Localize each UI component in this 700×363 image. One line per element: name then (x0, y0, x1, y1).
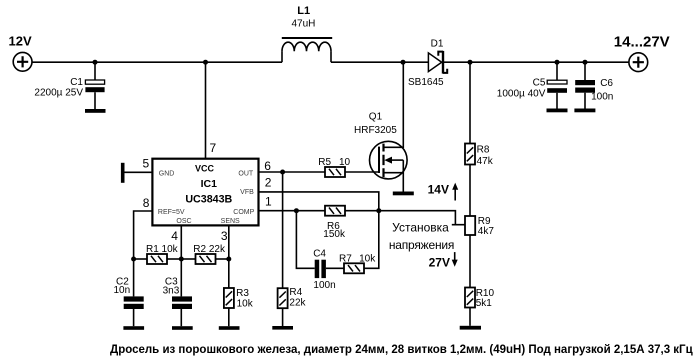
pin 6 wire (OUT) to gate (259, 171, 326, 173)
resistor R8 47k (465, 62, 494, 216)
capacitor C1 2200u 25V (34, 62, 104, 109)
node: C6 junction (583, 60, 588, 65)
svg-text:3: 3 (221, 229, 228, 243)
svg-text:10n: 10n (114, 285, 131, 296)
svg-text:D1: D1 (431, 38, 444, 49)
node: R2 right junction (226, 257, 231, 262)
node: C1 junction (93, 60, 98, 65)
ground below R10 (460, 326, 481, 330)
node: VCC junction (203, 60, 208, 65)
svg-text:SB1645: SB1645 (408, 77, 444, 88)
ground below C2 (123, 326, 144, 330)
node: COMP junction (294, 208, 299, 213)
12V input terminal (9, 34, 33, 72)
IC IC1 UC3843B (152, 159, 258, 226)
capacitor C6 100n (575, 62, 613, 108)
svg-text:R8: R8 (477, 145, 490, 156)
node: R8 junction (468, 60, 473, 65)
svg-text:HRF3205: HRF3205 (354, 125, 397, 136)
svg-text:1000µ 40V: 1000µ 40V (497, 89, 546, 100)
node: Q1 drain junction (401, 60, 406, 65)
capacitor C5 1000u 40V (497, 62, 567, 108)
svg-text:47uH: 47uH (292, 18, 316, 29)
svg-text:C5: C5 (533, 77, 546, 88)
pin 5 wire (GND) (124, 171, 152, 173)
wire: top rail left section (32, 61, 282, 63)
gate bar (378, 147, 380, 173)
wire: VFB node to R9 wiper (379, 211, 465, 225)
channel dashes (382, 144, 384, 178)
resistor R6 150k (323, 206, 346, 240)
svg-text:4: 4 (171, 229, 178, 243)
resistor R1 10k (134, 244, 182, 264)
svg-text:100n: 100n (591, 92, 613, 103)
capacitor C3 3n3 (163, 259, 192, 326)
svg-text:R7: R7 (339, 254, 352, 265)
resistor R10 5k1 (465, 288, 494, 326)
capacitor C2 10n (114, 259, 144, 326)
label Установка напряжения (389, 220, 454, 252)
wire: top rail right section (D1 to output) (444, 61, 630, 63)
svg-text:47k: 47k (477, 156, 494, 167)
svg-text:5: 5 (143, 157, 150, 171)
svg-text:IC1: IC1 (201, 178, 218, 190)
svg-text:12V: 12V (9, 34, 32, 49)
svg-text:SENS: SENS (221, 218, 240, 225)
pin 8 wire (REF) (134, 211, 153, 259)
node: VFB junction (376, 208, 381, 213)
ground below C6 (574, 109, 595, 113)
svg-text:C6: C6 (600, 78, 613, 89)
svg-text:OUT: OUT (238, 171, 254, 178)
label 27V with down arrow (429, 252, 458, 270)
node: C5 junction (555, 60, 560, 65)
svg-text:VFB: VFB (240, 189, 254, 196)
svg-text:R1 10k: R1 10k (146, 244, 179, 255)
label 14V with up arrow (428, 183, 459, 201)
ground at Q1 source (393, 192, 414, 196)
svg-text:150k: 150k (323, 229, 346, 240)
resistor R3 10k (224, 259, 254, 326)
svg-text:10k: 10k (359, 254, 376, 265)
ground below C5 (547, 109, 568, 113)
ground below C3 (172, 326, 193, 330)
pin 7 wire (VCC) (205, 62, 207, 159)
ground below R3 (219, 326, 240, 330)
svg-text:8: 8 (143, 196, 150, 210)
output terminal 14...27V (614, 34, 670, 72)
svg-text:4k7: 4k7 (478, 226, 495, 237)
svg-text:R2 22k: R2 22k (193, 244, 226, 255)
potentiometer R9 4k7 (465, 216, 494, 288)
svg-text:2: 2 (265, 176, 272, 190)
pin 3 wire (SENS) (228, 225, 230, 259)
drain connection (384, 62, 404, 147)
svg-text:14...27V: 14...27V (614, 34, 670, 51)
ground below R4 (272, 326, 293, 330)
source connection (384, 160, 404, 191)
svg-text:27V: 27V (429, 256, 450, 270)
svg-text:напряжения: напряжения (389, 238, 454, 252)
wire: top rail middle section (L1 to D1) (331, 61, 428, 63)
pin 5 ground bar (121, 163, 125, 183)
pin 4 wire (OSC) (180, 225, 182, 259)
svg-text:L1: L1 (297, 5, 310, 17)
capacitor C4 100n with resistor R7 10k branch (296, 211, 344, 291)
transistor Q1 HRF3205 (354, 62, 407, 191)
node: pin6/R4 junction (280, 170, 285, 175)
svg-text:R5: R5 (318, 157, 331, 168)
svg-text:10k: 10k (237, 299, 254, 310)
svg-text:COMP: COMP (233, 209, 254, 216)
resistor R4 22k (278, 172, 307, 326)
svg-text:REF=5V: REF=5V (158, 209, 185, 216)
svg-text:OSC: OSC (176, 218, 191, 225)
pin 2 wire (VFB) (259, 192, 379, 211)
body arrow (391, 159, 403, 161)
svg-text:R3: R3 (236, 288, 249, 299)
svg-text:14V: 14V (428, 183, 449, 197)
svg-text:C4: C4 (313, 248, 326, 259)
resistor R2 22k (181, 244, 229, 264)
svg-text:10: 10 (339, 157, 351, 168)
svg-text:1: 1 (265, 195, 272, 209)
svg-text:VCC: VCC (195, 164, 215, 174)
ground below C1 (85, 109, 106, 113)
svg-text:3n3: 3n3 (163, 286, 180, 297)
node: R1 left junction (131, 257, 136, 262)
resistor R7 10k (339, 211, 379, 274)
diode D1 SB1645 (408, 38, 447, 88)
svg-text:GND: GND (159, 171, 175, 178)
svg-text:R10: R10 (476, 288, 495, 299)
svg-text:2200µ 25V: 2200µ 25V (34, 88, 83, 99)
inductor L1 47uH (282, 5, 332, 62)
svg-text:7: 7 (210, 141, 217, 155)
svg-text:22k: 22k (289, 298, 306, 309)
resistor R5 10 (318, 157, 350, 177)
svg-text:Установка: Установка (392, 220, 449, 234)
svg-text:C1: C1 (70, 77, 83, 88)
svg-text:5k1: 5k1 (476, 298, 493, 309)
node: R1/R2 junction (179, 257, 184, 262)
svg-text:R4: R4 (289, 287, 302, 298)
svg-text:Дросель из порошкового железа,: Дросель из порошкового железа, диаметр 2… (110, 344, 693, 356)
svg-text:100n: 100n (313, 280, 335, 291)
svg-text:6: 6 (264, 159, 271, 173)
pin 1 wire (COMP) (259, 210, 326, 212)
svg-text:R9: R9 (478, 216, 491, 227)
svg-text:Q1: Q1 (369, 112, 383, 123)
svg-text:UC3843B: UC3843B (185, 194, 232, 206)
